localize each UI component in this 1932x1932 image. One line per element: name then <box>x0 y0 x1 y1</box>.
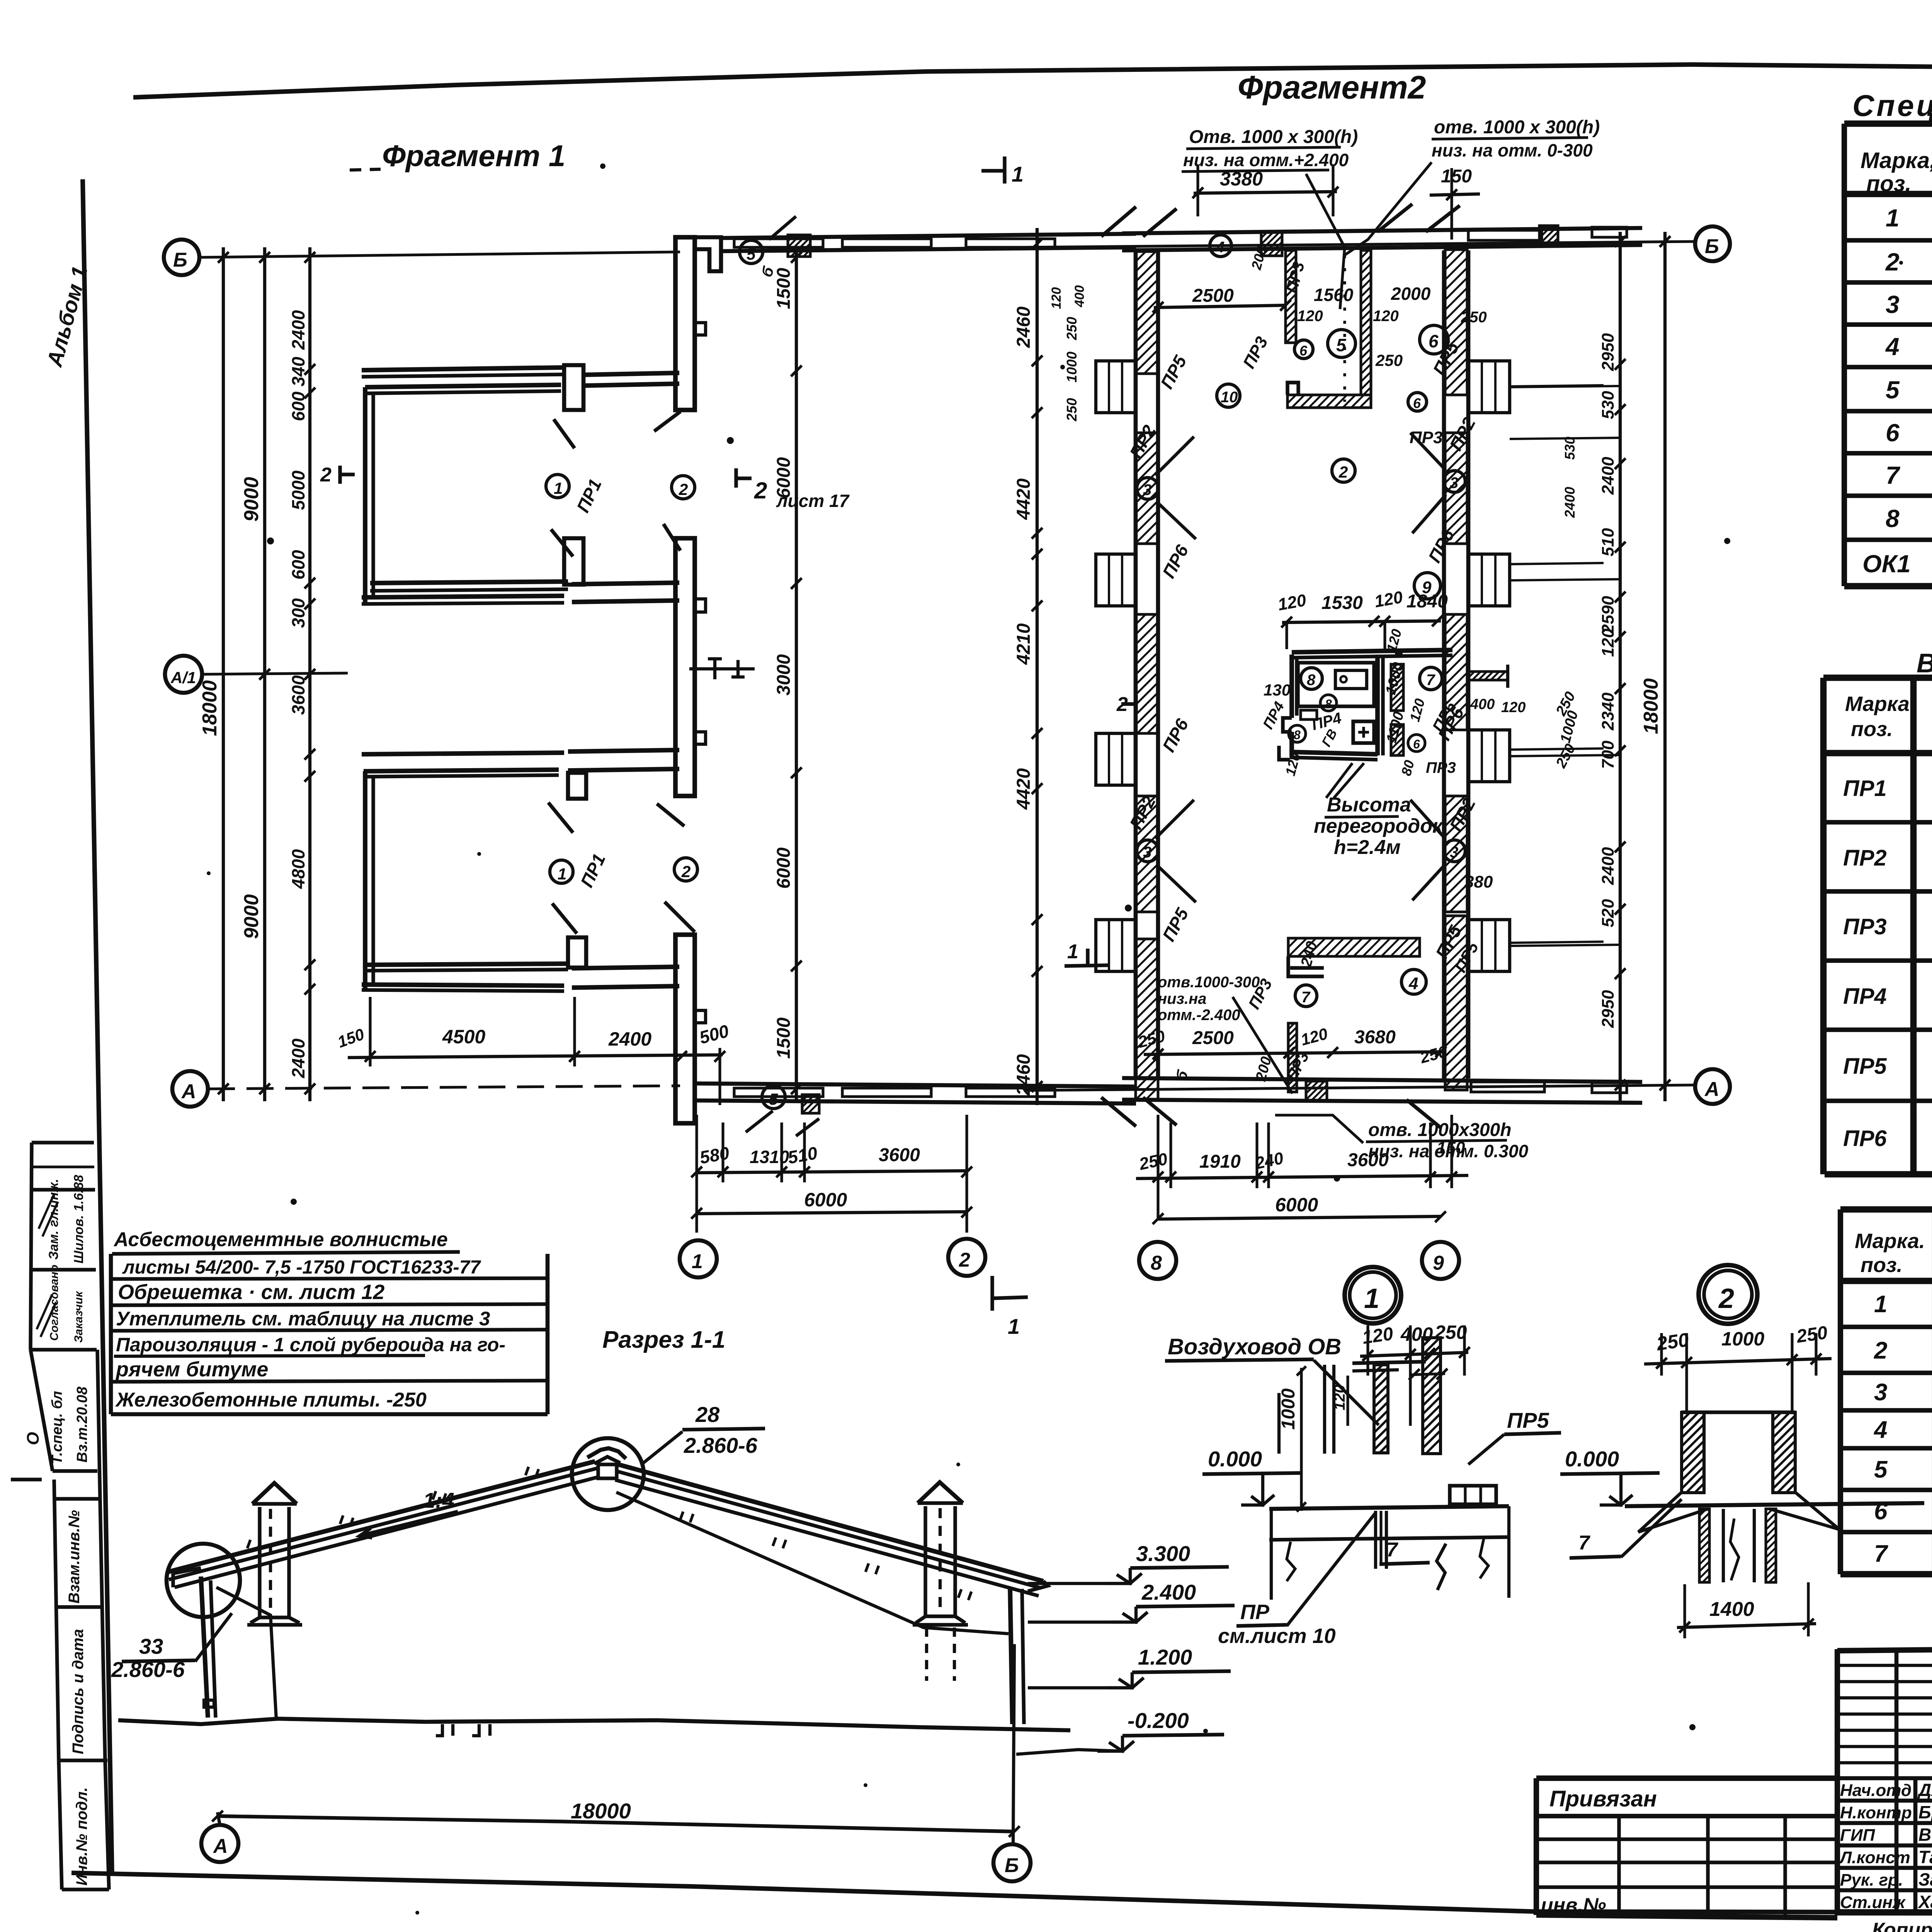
svg-text:2: 2 <box>754 478 767 503</box>
svg-text:5: 5 <box>1874 1456 1888 1483</box>
notes block box <box>111 1254 548 1414</box>
svg-text:ОК1: ОК1 <box>1862 550 1911 578</box>
svg-text:4: 4 <box>1408 974 1418 993</box>
f1 bottom band hatch block <box>802 1095 819 1113</box>
svg-text:2: 2 <box>679 480 688 498</box>
svg-text:0.000: 0.000 <box>1208 1447 1262 1471</box>
table specification peremychek grid <box>1840 1209 1932 1574</box>
svg-text:ПР5: ПР5 <box>1843 1054 1887 1079</box>
f2 bottom otv leader <box>1158 974 1317 1094</box>
svg-text:120: 120 <box>1501 699 1526 716</box>
svg-text:6: 6 <box>1429 331 1439 351</box>
svg-text:120: 120 <box>1276 591 1308 614</box>
elevation mark 3.300 <box>1028 1541 1229 1583</box>
f2 top dashed vent line <box>1343 255 1346 402</box>
svg-text:2460: 2460 <box>1014 306 1034 348</box>
ridge detail circle 28 <box>572 1438 644 1510</box>
svg-text:4420: 4420 <box>1014 768 1034 810</box>
f2 bathroom dims <box>1260 588 1448 777</box>
svg-text:1500: 1500 <box>774 1017 794 1059</box>
svg-text:ПР3: ПР3 <box>1426 759 1456 776</box>
roof slope right <box>615 1464 1043 1596</box>
svg-text:1: 1 <box>692 1250 703 1273</box>
svg-text:7: 7 <box>1874 1541 1888 1567</box>
detail1 vertical dim 1000 <box>1278 1366 1306 1512</box>
svg-text:10: 10 <box>1221 389 1238 406</box>
svg-text:1530: 1530 <box>1321 593 1363 613</box>
svg-text:А/1: А/1 <box>170 668 196 687</box>
detail 1 bubble <box>1345 1267 1401 1323</box>
f2 right windows <box>1468 361 1510 971</box>
elevation mark -0.200 <box>1016 1708 1224 1754</box>
svg-text:6000: 6000 <box>804 1189 847 1211</box>
axis B circle f1 <box>164 240 199 275</box>
svg-text:4: 4 <box>1216 239 1225 256</box>
svg-text:120: 120 <box>1373 308 1399 325</box>
svg-text:2: 2 <box>959 1249 970 1271</box>
svg-text:120: 120 <box>1406 697 1428 723</box>
f2 top interior partition room5 left <box>1286 250 1296 343</box>
svg-text:А: А <box>1704 1078 1719 1100</box>
svg-text:Л.конст: Л.конст <box>1839 1848 1910 1867</box>
axis A circle f2 <box>1695 1069 1730 1104</box>
svg-text:2950: 2950 <box>1599 990 1617 1028</box>
svg-text:листы 54/200- 7,5 -1750 Г: листы 54/200- 7,5 -1750 ГОСТ16233-77 <box>122 1257 481 1278</box>
svg-text:120: 120 <box>1299 1024 1330 1049</box>
svg-text:Фрагмент 1: Фрагмент 1 <box>382 139 565 173</box>
f2 top band hatch blocks <box>1261 226 1558 256</box>
f1 top room step block top <box>564 365 583 410</box>
svg-text:Шилов. 1.6.88: Шилов. 1.6.88 <box>71 1175 86 1264</box>
f1 top pos5 <box>740 216 796 279</box>
f1 bottom inner dims <box>335 997 731 1105</box>
f1 bottom room top wall <box>362 753 564 777</box>
f2 top interior partition room5 right <box>1361 250 1371 395</box>
svg-text:-0.200: -0.200 <box>1128 1708 1189 1733</box>
svg-text:6: 6 <box>1886 419 1900 447</box>
f2 right wall hatch blocks <box>1445 250 1467 1090</box>
svg-text:Марка.: Марка. <box>1855 1230 1925 1253</box>
detail 2 bubble <box>1699 1265 1757 1324</box>
roof eave tip hook <box>173 1568 201 1587</box>
svg-text:6: 6 <box>1413 737 1420 751</box>
svg-text:8: 8 <box>1294 728 1301 742</box>
f2 bottom wall band <box>1122 1078 1642 1103</box>
f1 plumbing symbol <box>689 659 755 679</box>
svg-text:6000: 6000 <box>774 457 794 498</box>
svg-text:1560: 1560 <box>1314 285 1354 305</box>
svg-text:3000: 3000 <box>774 654 794 696</box>
svg-text:6000: 6000 <box>774 847 794 889</box>
detail1 label 7 <box>1379 1511 1430 1564</box>
svg-text:Подпись и дата: Подпись и дата <box>70 1629 87 1754</box>
f1 bottom window band to f2 <box>696 1083 1136 1104</box>
svg-text:3: 3 <box>1143 481 1151 498</box>
lower chord right <box>616 1492 1009 1634</box>
svg-text:2400: 2400 <box>1562 487 1578 518</box>
svg-text:ПР6: ПР6 <box>1158 541 1192 582</box>
svg-text:А: А <box>213 1835 228 1857</box>
svg-text:120: 120 <box>1297 308 1323 325</box>
svg-text:250: 250 <box>1137 1149 1169 1174</box>
svg-text:8: 8 <box>1325 697 1332 711</box>
axis circle 2 bottom <box>948 1239 985 1276</box>
svg-text:5: 5 <box>1336 335 1347 355</box>
svg-text:ПР5: ПР5 <box>1156 352 1191 392</box>
svg-text:120: 120 <box>1282 751 1303 777</box>
purlin marks right slope <box>680 1512 971 1600</box>
svg-text:80: 80 <box>1398 759 1417 777</box>
svg-text:0.000: 0.000 <box>1565 1447 1619 1471</box>
svg-text:2400: 2400 <box>1599 847 1617 885</box>
svg-text:Талько: Талько <box>1918 1847 1932 1867</box>
f2 bottom room labels <box>1298 872 1493 994</box>
f1 bottom room right bar top <box>568 750 679 770</box>
svg-text:ПР6: ПР6 <box>1843 1126 1887 1151</box>
svg-text:ПР1: ПР1 <box>573 476 605 515</box>
f2 dim 3380 top <box>1192 166 1338 216</box>
svg-text:ПР2: ПР2 <box>1843 845 1887 871</box>
dim 18000 section <box>218 1799 1014 1832</box>
elevation mark 2.400 <box>1028 1580 1235 1622</box>
svg-text:ПР1: ПР1 <box>577 850 609 890</box>
f1 section mark 2 right <box>736 468 850 511</box>
svg-text:510: 510 <box>1599 528 1617 556</box>
svg-text:5: 5 <box>769 1090 778 1108</box>
axis circle 9 bottom <box>1422 1242 1459 1279</box>
f1 top room right bar top <box>583 373 679 386</box>
f2 vysota label <box>1314 763 1444 859</box>
svg-text:Взам.инв.№: Взам.инв.№ <box>66 1510 83 1604</box>
f2 bottom outer dims <box>1136 1115 1468 1219</box>
svg-text:б: б <box>1172 1068 1192 1083</box>
detail1 floor line <box>1269 1506 1509 1509</box>
f2 top dims 2500 1560 2000 <box>1153 245 1487 369</box>
svg-text:2590: 2590 <box>1599 596 1617 634</box>
sheet frame left border <box>83 179 112 1876</box>
f2 bathroom hatched bars <box>1391 664 1403 755</box>
svg-text:отв. 1000х300h: отв. 1000х300h <box>1368 1120 1512 1140</box>
svg-text:4: 4 <box>1885 333 1900 361</box>
svg-text:3: 3 <box>1143 844 1151 861</box>
svg-text:Б: Б <box>1705 235 1719 258</box>
title block signature table <box>1837 1649 1932 1915</box>
svg-text:120: 120 <box>1049 287 1064 309</box>
svg-text:2400: 2400 <box>288 310 308 350</box>
svg-text:510: 510 <box>786 1143 819 1168</box>
svg-text:3: 3 <box>1886 291 1900 318</box>
svg-text:33: 33 <box>139 1634 163 1658</box>
slope mark 1:4 <box>359 1488 458 1538</box>
svg-text:120: 120 <box>1331 1384 1348 1410</box>
f1 left chain dim line <box>288 247 315 1101</box>
detail1 break squiggle <box>1437 1544 1446 1590</box>
axis A circle f1 <box>172 1071 208 1107</box>
svg-text:2400: 2400 <box>288 1038 308 1078</box>
svg-text:ПР6: ПР6 <box>1158 715 1192 755</box>
svg-text:2: 2 <box>1718 1283 1734 1314</box>
svg-text:Н.контр: Н.контр <box>1840 1803 1912 1822</box>
left wall column <box>201 1577 216 1718</box>
svg-text:Высота: Высота <box>1327 794 1411 816</box>
svg-text:300: 300 <box>288 598 308 628</box>
interior tie line left <box>216 1587 276 1719</box>
f1 bottom tall wall block <box>675 935 706 1123</box>
f2 dim 6000 bottom <box>1153 1194 1446 1224</box>
svg-text:ПР2: ПР2 <box>1126 422 1160 462</box>
svg-text:Т.спец. бл: Т.спец. бл <box>49 1391 65 1464</box>
f2 pos3 circles upper <box>1137 433 1465 539</box>
0.000 mark detail1 <box>1202 1447 1302 1505</box>
svg-text:3: 3 <box>1874 1379 1887 1406</box>
svg-text:4: 4 <box>1873 1417 1887 1443</box>
svg-text:530: 530 <box>1599 391 1617 419</box>
svg-text:18000: 18000 <box>571 1799 631 1823</box>
f2 top wall band <box>1122 227 1642 250</box>
svg-text:530: 530 <box>1562 437 1578 460</box>
svg-text:Нач.отд: Нач.отд <box>1840 1781 1912 1800</box>
axis B circle section <box>993 1644 1031 1881</box>
svg-text:А: А <box>181 1080 196 1103</box>
svg-text:2: 2 <box>1338 463 1348 481</box>
svg-text:250: 250 <box>1795 1322 1829 1347</box>
f2 door swings top <box>1101 204 1460 236</box>
detail1 duct right wall <box>1423 1338 1440 1454</box>
eave detail label 33/2.860-6 <box>111 1613 232 1682</box>
axis B line f1 <box>199 252 680 257</box>
vedomost peremychek row labels <box>1843 776 1887 1151</box>
svg-text:1000: 1000 <box>1278 1388 1299 1430</box>
sheet frame top border <box>133 65 1932 97</box>
vozduhovod label <box>1165 1334 1379 1425</box>
svg-text:3600: 3600 <box>879 1145 920 1165</box>
svg-text:Инв.№ подл.: Инв.№ подл. <box>73 1787 90 1886</box>
svg-text:7: 7 <box>1386 1539 1398 1561</box>
svg-text:1000: 1000 <box>1721 1328 1764 1350</box>
svg-text:Вз.т.20.08: Вз.т.20.08 <box>74 1386 90 1463</box>
svg-text:ПР4: ПР4 <box>1843 984 1887 1009</box>
svg-text:ПР5: ПР5 <box>1507 1408 1549 1432</box>
svg-text:150: 150 <box>335 1025 367 1051</box>
f1 top window band to f2 <box>721 234 1136 251</box>
f1 door swing bottom room <box>548 803 695 934</box>
svg-text:400: 400 <box>1072 285 1087 308</box>
svg-text:Воздуховод ОВ: Воздуховод ОВ <box>1168 1334 1341 1359</box>
f2 right small dims window <box>1510 385 1604 943</box>
f2 left dim chain <box>1014 228 1043 1105</box>
table spec header texts <box>1861 148 1932 197</box>
svg-text:1000: 1000 <box>1064 352 1080 383</box>
section chimney 2 <box>913 1482 968 1681</box>
floor hatch marks <box>436 1724 490 1736</box>
svg-text:2.400: 2.400 <box>1141 1580 1196 1604</box>
svg-text:ГИП: ГИП <box>1840 1826 1876 1845</box>
svg-text:низ. на отм.+2.400: низ. на отм.+2.400 <box>1183 150 1349 170</box>
svg-text:Ведомость перемычек: Ведомость перемычек <box>1917 648 1932 678</box>
svg-text:8: 8 <box>1151 1252 1162 1274</box>
svg-text:2: 2 <box>681 862 690 881</box>
svg-text:250: 250 <box>1064 398 1080 422</box>
svg-text:поз.: поз. <box>1861 1253 1903 1277</box>
f2 PR labels right <box>1424 338 1480 962</box>
svg-text:7: 7 <box>1578 1532 1590 1554</box>
svg-text:120: 120 <box>1599 628 1617 657</box>
axis A line f1 <box>208 1086 680 1089</box>
svg-text:Железобетонные плиты. -250: Железобетонные плиты. -250 <box>115 1389 427 1411</box>
f2 dim 150 top <box>1430 166 1480 240</box>
f2 bathroom fixtures <box>1301 670 1374 743</box>
svg-text:520: 520 <box>1599 899 1617 927</box>
svg-text:Брызгалова: Брызгалова <box>1918 1802 1932 1822</box>
f1 top room left wall <box>365 387 373 604</box>
f1 top room right bar bottom <box>572 583 679 602</box>
section mark 1 top f2 <box>981 156 1024 186</box>
f1 top room step block bottom <box>564 538 583 585</box>
svg-text:1910: 1910 <box>1199 1151 1241 1172</box>
PR5 label detail1 <box>1468 1408 1561 1464</box>
svg-text:3: 3 <box>1450 474 1458 492</box>
f2 pos3 circles lower <box>1137 800 1465 902</box>
svg-text:ПР3: ПР3 <box>1240 333 1272 371</box>
svg-text:9000: 9000 <box>240 477 263 522</box>
svg-text:250: 250 <box>1461 309 1487 326</box>
f2 left windows <box>1096 361 1136 971</box>
detail2 left wall <box>1682 1412 1704 1493</box>
ridge detail label 28/2.860-6 <box>641 1402 765 1464</box>
svg-text:1310: 1310 <box>750 1147 789 1167</box>
ground line section <box>118 1719 1070 1730</box>
svg-text:Дячук: Дячук <box>1917 1780 1932 1800</box>
f2 pos9 circle <box>1414 573 1440 599</box>
svg-text:340: 340 <box>288 357 308 386</box>
detail2 right wall <box>1773 1412 1795 1493</box>
svg-text:7: 7 <box>1301 989 1311 1006</box>
f2 otv label top1 <box>1182 127 1358 309</box>
svg-text:6: 6 <box>1299 343 1308 359</box>
axis A circle section <box>201 1811 238 1862</box>
purlin marks left slope <box>247 1467 539 1551</box>
svg-text:8: 8 <box>1307 672 1316 689</box>
svg-text:2460: 2460 <box>1014 1054 1034 1096</box>
detail1 duct cap <box>1352 1362 1426 1371</box>
svg-text:600: 600 <box>288 550 308 580</box>
svg-text:6000: 6000 <box>1275 1194 1318 1216</box>
svg-text:120: 120 <box>1361 1323 1395 1348</box>
svg-text:рячем битуме: рячем битуме <box>115 1358 268 1381</box>
f2 otv label top2 <box>1345 117 1600 255</box>
svg-text:400: 400 <box>1470 696 1495 713</box>
svg-text:2340: 2340 <box>1599 692 1617 731</box>
detail2 floor line <box>1625 1503 1924 1506</box>
svg-text:1: 1 <box>554 479 563 497</box>
table specification zapolneniya proemov grid <box>1844 124 1932 586</box>
svg-text:1500: 1500 <box>774 268 794 309</box>
svg-text:ПР6: ПР6 <box>1424 526 1458 566</box>
svg-text:1: 1 <box>1874 1291 1887 1318</box>
svg-text:поз.: поз. <box>1866 171 1912 196</box>
f1 bottom pos5 <box>746 1085 819 1136</box>
left stamp strip signatures box <box>37 1175 86 1343</box>
svg-text:5000: 5000 <box>288 470 308 510</box>
detail1 small dim 120 <box>1331 1376 1348 1426</box>
axis B line f2 <box>1024 241 1695 247</box>
svg-text:3: 3 <box>1450 844 1458 861</box>
left stamp strip middle boxes <box>24 1350 100 1480</box>
svg-text:2400: 2400 <box>608 1028 651 1050</box>
svg-text:Привязан: Привязан <box>1549 1786 1657 1811</box>
spec peremychek rows <box>1873 1291 1932 1567</box>
f1 bottom room right bar bottom <box>572 967 679 988</box>
svg-text:Б: Б <box>173 249 187 271</box>
detail2 foundation piers <box>1638 1492 1839 1582</box>
f2 left small dims <box>1049 285 1087 422</box>
f2 bathroom right stubs <box>1468 665 1582 771</box>
eave detail circle 33 <box>167 1544 240 1617</box>
f2 window dim leaders right <box>1510 386 1620 946</box>
svg-text:ПР1: ПР1 <box>1843 776 1887 801</box>
fragment1 title <box>350 139 565 173</box>
svg-text:ПР5: ПР5 <box>1158 904 1193 945</box>
f2 left wall <box>1136 250 1158 1078</box>
axis B circle f2 <box>1695 226 1730 261</box>
svg-text:Заказчик: Заказчик <box>72 1291 85 1343</box>
f1 central tall wall <box>675 538 706 796</box>
svg-text:h=2.4м: h=2.4м <box>1334 836 1401 859</box>
axis A1 circle f1 <box>165 656 348 693</box>
f1 top room pos circles <box>546 474 695 515</box>
f2 room circles top <box>1210 235 1448 482</box>
f2 right wall <box>1444 250 1468 1078</box>
svg-text:7: 7 <box>1426 672 1435 689</box>
svg-text:9: 9 <box>1433 1252 1444 1274</box>
f1 door swing top room <box>551 412 680 556</box>
svg-text:4500: 4500 <box>442 1026 485 1048</box>
svg-text:отв. 1000 х 300(h): отв. 1000 х 300(h) <box>1434 117 1600 138</box>
svg-text:4420: 4420 <box>1014 478 1034 520</box>
svg-text:Разрез 1-1: Разрез 1-1 <box>602 1327 725 1353</box>
f2 right dim chain inner <box>1599 232 1626 1101</box>
svg-text:9: 9 <box>1422 578 1432 597</box>
svg-text:отв.1000-300: отв.1000-300 <box>1158 974 1260 991</box>
0.000 mark detail2 <box>1560 1447 1660 1505</box>
svg-text:2000: 2000 <box>1391 284 1431 304</box>
detail1 left wall line <box>1279 1365 1334 1454</box>
detail2 dim 1400 <box>1677 1582 1816 1638</box>
left stamp lower boxes <box>54 1480 109 1889</box>
svg-text:8: 8 <box>1886 505 1900 532</box>
detail1 dims 120 400 250 <box>1360 1321 1470 1426</box>
f1 bottom room step block bottom <box>568 937 586 968</box>
svg-text:5: 5 <box>747 245 756 263</box>
svg-text:ПР: ПР <box>1240 1600 1270 1624</box>
svg-text:7: 7 <box>1886 461 1901 489</box>
f2 bottom inner dims <box>1136 1024 1449 1067</box>
f1 top room top wall <box>362 367 564 393</box>
detail2 opening outline <box>1682 1412 1795 1492</box>
svg-text:250: 250 <box>1136 1027 1167 1051</box>
svg-text:Пароизоляция - 1 слой рубероид: Пароизоляция - 1 слой рубероида на го- <box>116 1334 505 1355</box>
svg-text:перегородок: перегородок <box>1314 815 1444 837</box>
detail1 lintel PR5 <box>1450 1486 1496 1504</box>
svg-text:250: 250 <box>1375 351 1403 369</box>
svg-text:б: б <box>758 264 777 279</box>
f1 bottom room step block top <box>568 773 586 799</box>
svg-text:Харенко: Харенко <box>1917 1892 1932 1912</box>
right wall <box>1010 1581 1048 1724</box>
f1 right dim chain <box>774 247 802 1101</box>
title block main box <box>1837 1649 1932 1913</box>
svg-text:6: 6 <box>1413 395 1421 411</box>
